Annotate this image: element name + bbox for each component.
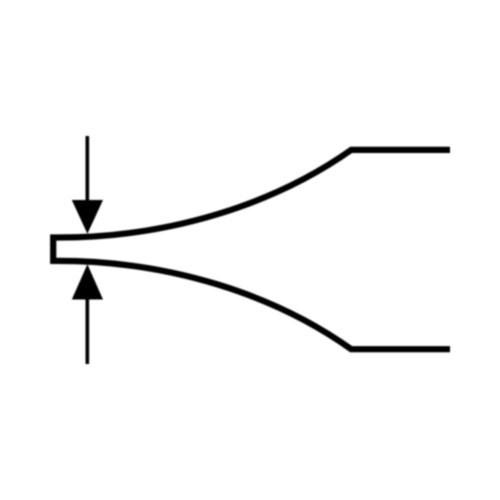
bottom dimension arrowhead (pointing up): [72, 264, 103, 299]
top dimension arrowhead (pointing down): [72, 200, 103, 234]
bottom dimension arrow shaft: [86, 294, 90, 364]
top dimension arrow shaft: [86, 136, 90, 206]
tapered jaw profile outline (tip cap, top and bottom curves, straight shanks): [53, 150, 450, 349]
